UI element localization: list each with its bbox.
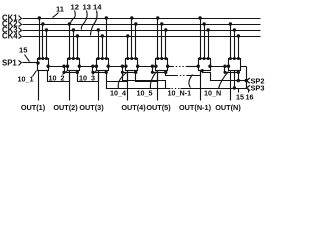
wire stage 2 output to stage 3 input	[80, 66, 97, 68]
leader line for 10_5	[150, 72, 156, 89]
junction node on carry wire after stage 4	[151, 65, 153, 67]
input pin dot stage 6	[197, 65, 199, 67]
pin dot at box top stage 2	[68, 58, 70, 60]
clock bus line CK1	[23, 18, 261, 20]
junction node on carry wire after stage 3	[121, 65, 123, 67]
SP3 wire ellipsis	[172, 88, 181, 90]
svg-text:15: 15	[236, 92, 244, 101]
shift-register stage box 10_6	[199, 59, 211, 71]
svg-text:OUT(5): OUT(5)	[146, 103, 171, 112]
svg-text:14: 14	[93, 3, 102, 12]
carry wire stage 2 to stage 3 (under label)	[78, 71, 99, 82]
junction dot under stage 4	[135, 71, 137, 73]
output wire to OUT(N)	[230, 71, 232, 101]
pin stub to stage 3 bottom	[106, 71, 108, 73]
junction dot on SP3 line	[233, 87, 235, 89]
node SP1 input pin of stage 10_1	[37, 62, 39, 64]
wire SP1 to stage 10_1	[23, 62, 38, 64]
pin dot at box top stage 4	[127, 58, 129, 60]
junction dot on CK3 bus	[233, 29, 235, 31]
shift-register stage box 10_5	[156, 59, 168, 71]
clock pin wire stage 6 pin 3 from CK3	[208, 31, 210, 59]
leader line 12	[71, 11, 76, 24]
junction dot on CK2 bus	[161, 23, 163, 25]
pin stub to stage 4 bottom	[135, 71, 137, 73]
pin stub to stage 5 bottom	[165, 71, 167, 73]
terminal arrow SP3	[246, 85, 250, 90]
carry wire stage 5 to stage N-1 (with ellipsis)	[166, 73, 177, 76]
carry wire stage 4 to stage 5 (under label)	[136, 71, 158, 82]
pin dot at box top stage 3	[97, 58, 99, 60]
output pin dot stage 5	[167, 65, 169, 67]
leader line for 10_N	[219, 72, 229, 89]
output pin dot stage 2	[78, 65, 80, 67]
wire stage 6 output to stage 7 input	[211, 66, 229, 68]
junction dot under stage 2	[76, 71, 78, 73]
leader line for 10_2	[63, 71, 68, 75]
pin dot at box top stage 7	[229, 58, 231, 60]
leader line 11	[53, 13, 59, 18]
svg-text:OUT(1): OUT(1)	[21, 103, 46, 112]
terminal chevron CK2	[19, 22, 22, 27]
leader line 15	[25, 55, 30, 62]
output wire to OUT(N-1)	[200, 71, 202, 101]
output pin dot stage 3	[107, 65, 109, 67]
svg-text:10_1: 10_1	[18, 75, 34, 84]
output pin dot stage 1	[47, 65, 49, 67]
junction dot on CK1 bus	[157, 17, 159, 19]
pin dot at box top stage 6	[203, 58, 205, 60]
pin dot stage N-1 bottom	[201, 70, 203, 72]
junction dot on CK4 bus	[101, 35, 103, 37]
svg-text:OUT(4): OUT(4)	[121, 103, 146, 112]
pin dot at box top stage 4	[135, 58, 137, 60]
junction dot on CK1 bus	[105, 17, 107, 19]
svg-text:OUT(N): OUT(N)	[215, 103, 241, 112]
branch wire down after stage 2	[92, 67, 94, 73]
clock pin wire stage 2 pin 3 from CK4	[77, 37, 79, 59]
junction dot on CK3 bus	[45, 29, 47, 31]
junction node on carry wire after stage 6	[224, 65, 226, 67]
junction dot on CK2 bus	[42, 23, 44, 25]
svg-text:OUT(N-1): OUT(N-1)	[179, 103, 212, 112]
branch under stage N down to SP2 line	[238, 73, 240, 81]
pin dot at box top stage 3	[101, 58, 103, 60]
output wire to OUT(2)	[69, 71, 71, 101]
svg-text:10_5: 10_5	[137, 88, 153, 97]
clock pin wire stage 7 pin 3 from CK4	[238, 37, 240, 59]
pin dot at box top stage 1	[38, 58, 40, 60]
branch wire down-right jog (stage 4 area)	[123, 73, 166, 89]
output pin dot stage 6	[209, 65, 211, 67]
clock pin wire stage 5 pin 1 from CK1	[157, 19, 159, 59]
branch stage N mid pin down to SP3 line	[234, 71, 236, 89]
junction dot on CK1 bus	[38, 17, 40, 19]
output wire to OUT(3)	[98, 71, 100, 101]
junction dot on CK2 bus	[203, 23, 205, 25]
pin dot at box top stage 6	[207, 58, 209, 60]
junction dot at branch bottom	[63, 71, 65, 73]
svg-text:10_4: 10_4	[110, 88, 126, 97]
junction dot on CK3 bus	[207, 29, 209, 31]
wire under stage 2	[65, 72, 78, 74]
clock bus line CK2	[23, 24, 261, 26]
pin dot at box top stage 4	[131, 58, 133, 60]
junction dot at branch bottom	[121, 71, 123, 73]
clock pin wire stage 5 pin 3 from CK3	[165, 31, 167, 59]
clock pin wire stage 1 pin 3 from CK3	[46, 31, 48, 59]
clock pin wire stage 1 pin 1 from CK1	[39, 19, 41, 59]
svg-text:CK4: CK4	[2, 32, 18, 41]
junction dot on CK2 bus	[68, 23, 70, 25]
junction dot on CK3 bus	[97, 29, 99, 31]
SP3 wire to terminal	[181, 88, 247, 90]
wire stage 1 output to stage 2 input	[49, 66, 68, 68]
clock pin wire stage 7 pin 2 from CK3	[234, 31, 236, 59]
pin stub to stage 7 bottom	[238, 71, 240, 73]
shift-register stage box 10_1	[38, 59, 49, 71]
clock pin wire stage 6 pin 1 from CK1	[200, 19, 202, 59]
svg-text:11: 11	[56, 5, 65, 14]
svg-text:13: 13	[83, 3, 91, 12]
junction dot under stage 3	[105, 71, 107, 73]
shift-register stage box 10_4	[126, 59, 138, 71]
pin dot at box top stage 2	[72, 58, 74, 60]
input pin dot stage 3	[95, 65, 97, 67]
junction dot on CK4 bus	[127, 35, 129, 37]
pin dot at box top stage 2	[76, 58, 78, 60]
svg-text:SP1: SP1	[2, 59, 17, 68]
junction node on carry wire after stage 1	[63, 65, 65, 67]
junction dot stage N output ext on SP2 line	[245, 79, 247, 81]
junction dot on CK4 bus	[76, 35, 78, 37]
shift-register stage box 10_7	[229, 59, 241, 71]
clock pin wire stage 4 pin 3 from CK2	[135, 25, 137, 59]
pin dot at box top stage 5	[157, 58, 159, 60]
input pin dot stage 7	[227, 65, 229, 67]
pin dot at box top stage 1	[42, 58, 44, 60]
terminal chevron CK3	[19, 28, 22, 33]
branch from stage N output down through SP2 to SP3 level	[246, 67, 248, 89]
pin dot at box top stage 6	[199, 58, 201, 60]
wire stage N output extension	[241, 66, 247, 68]
junction dot on CK4 bus	[237, 35, 239, 37]
clock pin wire stage 6 pin 2 from CK2	[204, 25, 206, 59]
svg-text:15: 15	[19, 46, 28, 55]
clock pin wire stage 5 pin 2 from CK2	[161, 25, 163, 59]
clock pin wire stage 2 pin 1 from CK2	[69, 25, 71, 59]
clock pin wire stage 1 pin 2 from CK2	[42, 25, 44, 59]
junction dot at branch bottom	[224, 71, 226, 73]
shift-register stage box 10_2	[68, 59, 80, 71]
leader line 13	[81, 11, 87, 30]
wire under stage 4	[123, 72, 136, 74]
pin dot at box top stage 1	[45, 58, 47, 60]
junction dot on CK2 bus	[135, 23, 137, 25]
carry wire stage 1 to stage 2 (under label)	[48, 71, 70, 82]
svg-text:10_N: 10_N	[204, 89, 221, 98]
shift-register stage box 10_3	[97, 59, 109, 71]
leader line for 10_N-1	[189, 75, 193, 88]
leader line right 15	[238, 89, 240, 93]
junction dot under stage 7	[237, 71, 239, 73]
leader line for 10_1	[33, 71, 37, 77]
carry wire stage 3 to stage 4 (under label)	[107, 71, 128, 82]
input pin dot stage 4	[125, 65, 127, 67]
output wire to OUT(4)	[127, 71, 129, 101]
svg-text:12: 12	[71, 3, 79, 12]
clock pin wire stage 4 pin 2 from CK1	[131, 19, 133, 59]
pin stub to stage 2 bottom	[77, 71, 79, 73]
terminal chevron SP1	[19, 61, 22, 66]
svg-text:10_N-1: 10_N-1	[168, 89, 192, 98]
input pin dot stage 5	[155, 65, 157, 67]
output pin dot stage 4	[137, 65, 139, 67]
svg-text:10_2: 10_2	[49, 73, 65, 82]
branch wire down after stage 1	[64, 67, 66, 73]
svg-text:OUT(2): OUT(2)	[53, 103, 78, 112]
clock pin wire stage 3 pin 3 from CK1	[106, 19, 108, 59]
branch wire down after stage 3	[122, 67, 124, 73]
leader line for 10_3	[93, 71, 97, 75]
junction dot on CK3 bus	[165, 29, 167, 31]
wire stage 4 output to stage 5 input	[138, 66, 156, 68]
pin dot at box top stage 3	[105, 58, 107, 60]
wire under stage 5	[153, 72, 166, 74]
svg-text:OUT(3): OUT(3)	[79, 103, 104, 112]
pin dot at box top stage 7	[237, 58, 239, 60]
junction dot on CK2 bus	[229, 23, 231, 25]
output wire to OUT(5)	[157, 71, 159, 101]
wire stage 3 output to stage 4 input	[109, 66, 126, 68]
clock pin wire stage 7 pin 1 from CK2	[230, 25, 232, 59]
junction dot on SP2 line	[237, 79, 239, 81]
junction dot on CK1 bus	[199, 17, 201, 19]
leader line for 10_4	[118, 73, 126, 89]
branch wire down after stage 6	[224, 67, 226, 73]
SP2 wire from stage N-1 bottom pin	[203, 71, 247, 81]
svg-text:10_3: 10_3	[79, 73, 95, 82]
wire stage 5 output to stage 6 input	[168, 66, 173, 68]
clock pin wire stage 4 pin 1 from CK4	[127, 37, 129, 59]
clock bus line CK4	[23, 36, 261, 38]
terminal chevron CK1	[19, 16, 22, 21]
junction dot on CK1 bus	[131, 17, 133, 19]
svg-text:16: 16	[246, 92, 254, 101]
pin dot at box top stage 5	[161, 58, 163, 60]
SP3 wire from under stage 3	[107, 82, 171, 89]
wire under stage 7	[225, 72, 239, 74]
clock pin wire stage 3 pin 1 from CK3	[98, 31, 100, 59]
pin dot at box top stage 5	[165, 58, 167, 60]
terminal arrow SP2	[246, 78, 250, 83]
pin dot at box top stage 7	[233, 58, 235, 60]
terminal chevron CK4	[19, 34, 22, 39]
junction dot on CK3 bus	[72, 29, 74, 31]
leader line 16	[248, 89, 250, 93]
leader line 14	[91, 11, 98, 36]
wire under stage 3	[93, 72, 107, 74]
clock bus line CK3	[23, 30, 261, 32]
junction node on carry wire after stage 2	[92, 65, 94, 67]
junction dot at branch bottom	[92, 71, 94, 73]
clock pin wire stage 2 pin 2 from CK3	[73, 31, 75, 59]
branch wire down after stage 4	[152, 67, 154, 73]
junction dot under stage 5	[165, 71, 167, 73]
clock pin wire stage 3 pin 2 from CK4	[102, 37, 104, 59]
junction dot at branch bottom	[151, 71, 153, 73]
input pin dot stage 2	[66, 65, 68, 67]
output wire to OUT(1)	[38, 71, 40, 101]
